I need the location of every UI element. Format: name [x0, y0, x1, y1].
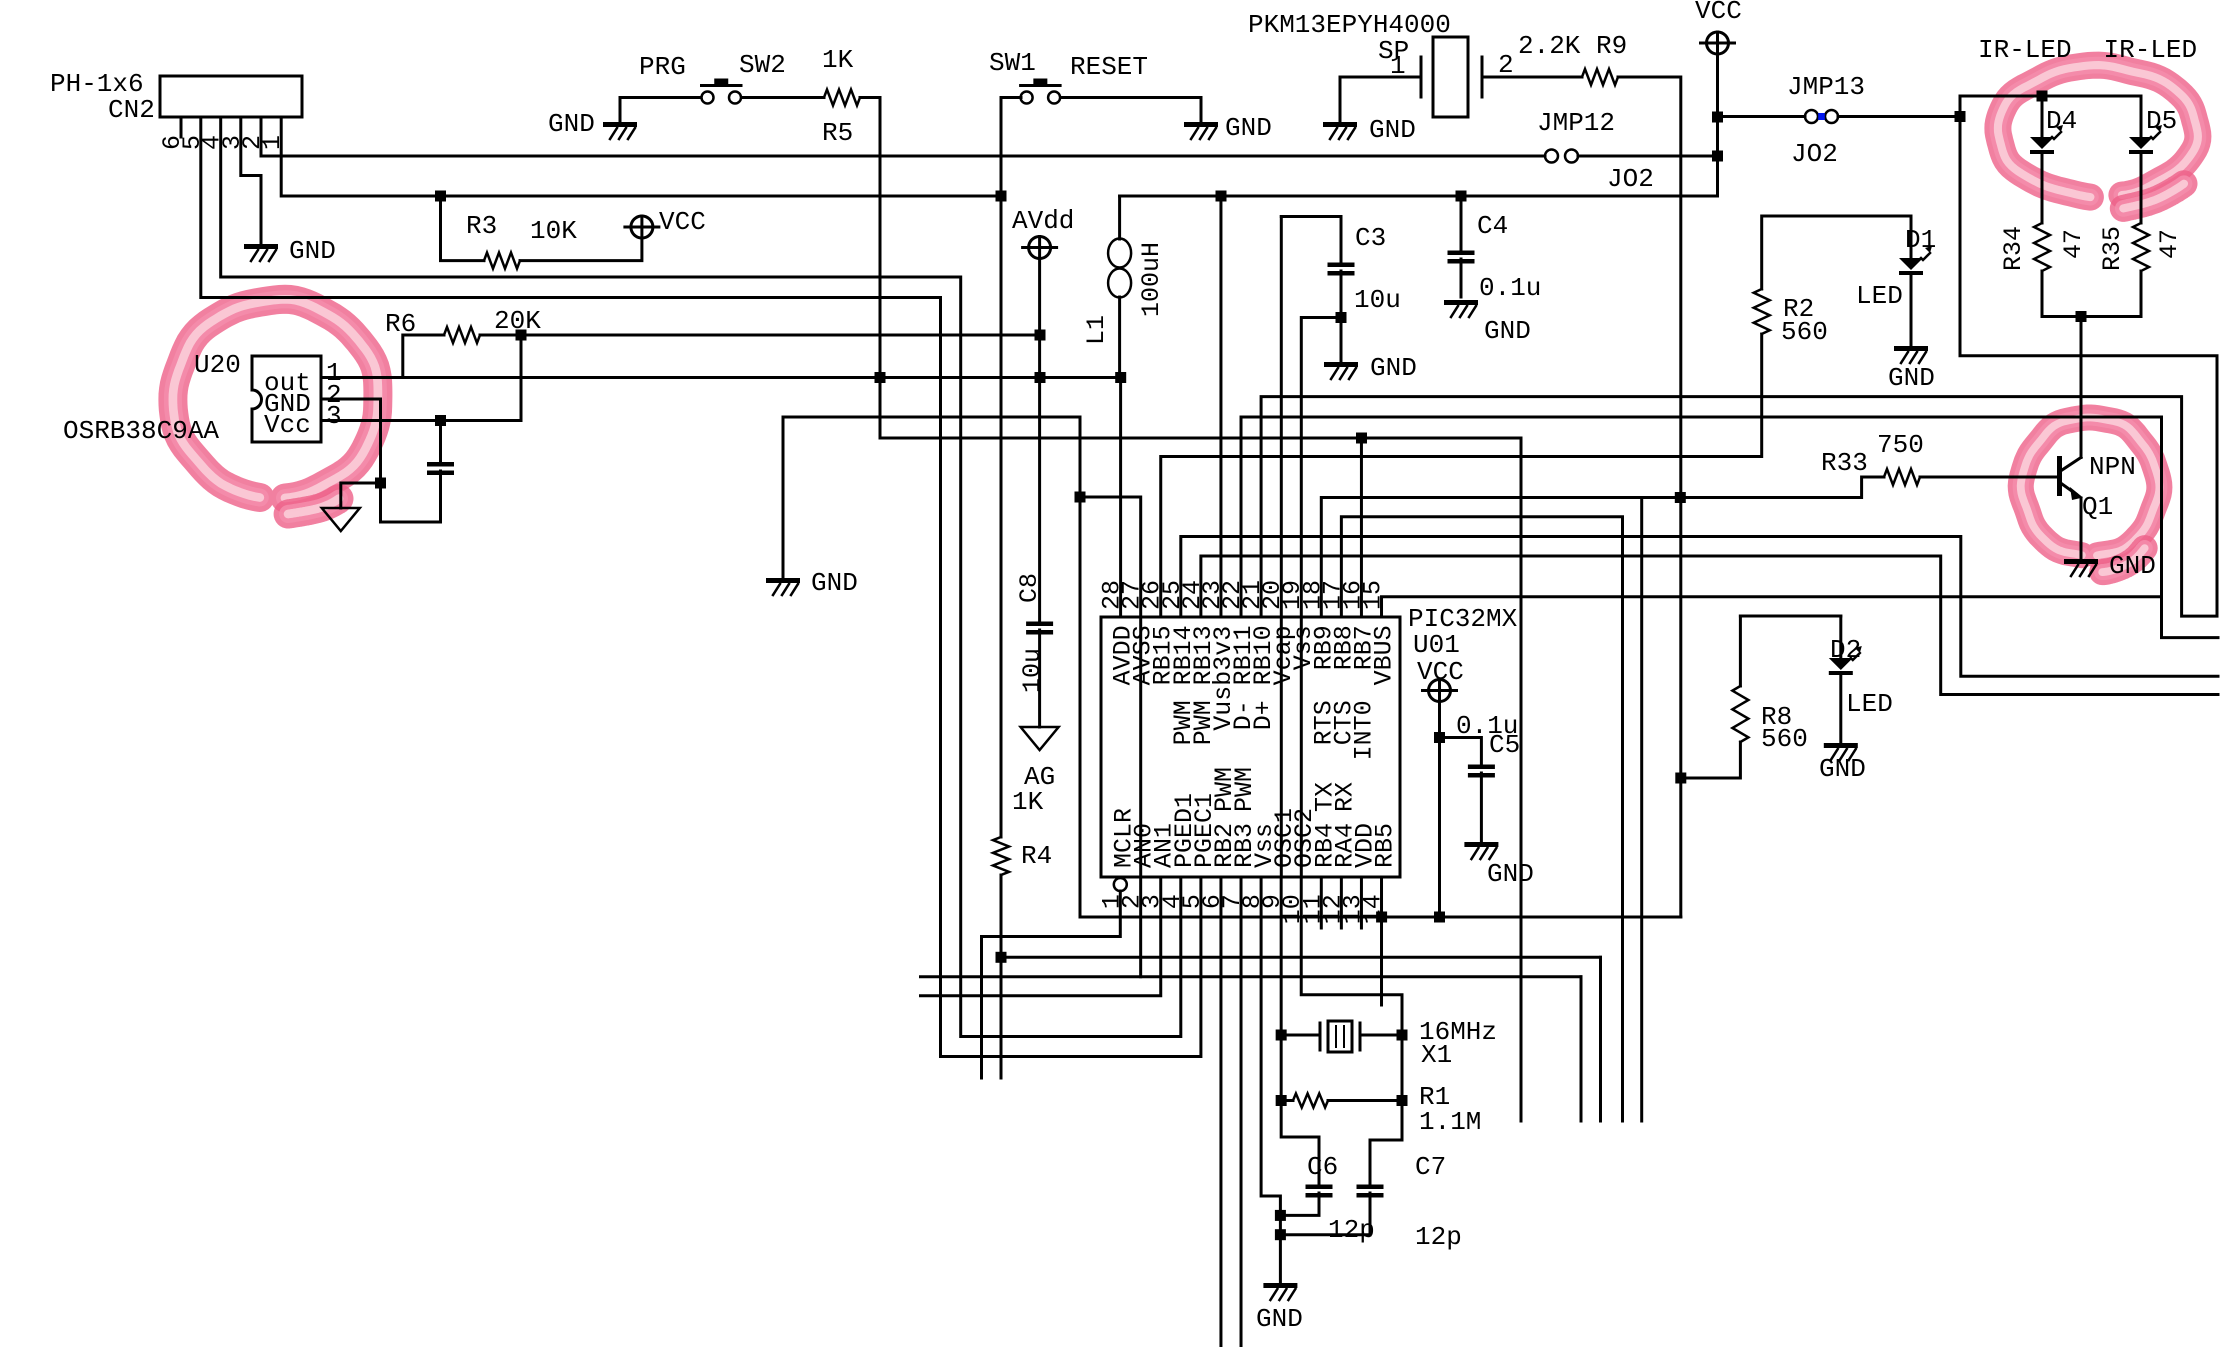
svg-text:560: 560 [1761, 724, 1808, 754]
svg-text:SW1: SW1 [989, 48, 1036, 78]
svg-text:100uH: 100uH [1137, 242, 1166, 317]
svg-text:10u: 10u [1018, 648, 1047, 693]
svg-text:OSRB38C9AA: OSRB38C9AA [63, 416, 219, 446]
svg-text:GND: GND [1888, 363, 1935, 393]
svg-text:JMP12: JMP12 [1537, 108, 1615, 138]
svg-text:6: 6 [158, 135, 187, 150]
svg-text:U01: U01 [1413, 630, 1460, 660]
svg-text:GND: GND [1369, 115, 1416, 145]
svg-text:0.1u: 0.1u [1479, 273, 1541, 303]
svg-text:GND: GND [1256, 1304, 1303, 1334]
svg-text:3: 3 [326, 401, 342, 431]
svg-text:R34: R34 [1999, 226, 2028, 271]
svg-text:SW2: SW2 [739, 50, 786, 80]
svg-text:LED: LED [1846, 689, 1893, 719]
svg-text:CN2: CN2 [108, 95, 155, 125]
svg-text:D5: D5 [2146, 106, 2177, 136]
svg-text:2.2K R9: 2.2K R9 [1518, 31, 1627, 61]
svg-text:GND: GND [2109, 551, 2156, 581]
svg-text:JO2: JO2 [1607, 164, 1654, 194]
svg-text:GND: GND [548, 109, 595, 139]
svg-text:PKM13EPYH4000: PKM13EPYH4000 [1248, 10, 1451, 40]
svg-text:X1: X1 [1421, 1040, 1452, 1070]
svg-text:47: 47 [2059, 229, 2088, 259]
svg-text:C8: C8 [1015, 573, 1044, 603]
svg-text:C5: C5 [1489, 730, 1520, 760]
svg-text:R33: R33 [1821, 448, 1868, 478]
svg-text:10u: 10u [1354, 285, 1401, 315]
svg-text:PRG: PRG [639, 52, 686, 82]
svg-text:R5: R5 [822, 118, 853, 148]
svg-text:JMP13: JMP13 [1787, 72, 1865, 102]
svg-text:VCC: VCC [1695, 0, 1742, 26]
svg-text:PWM: PWM [1230, 767, 1259, 812]
svg-text:C6: C6 [1307, 1152, 1338, 1182]
svg-text:AVdd: AVdd [1012, 206, 1074, 236]
svg-text:RB5: RB5 [1371, 823, 1400, 868]
svg-text:IR-LED: IR-LED [1978, 35, 2072, 65]
svg-text:C3: C3 [1355, 223, 1386, 253]
svg-text:GND: GND [1487, 859, 1534, 889]
svg-text:L1: L1 [1082, 315, 1111, 345]
svg-text:R35: R35 [2098, 226, 2127, 271]
svg-text:RESET: RESET [1070, 52, 1148, 82]
svg-text:RX: RX [1330, 782, 1359, 812]
svg-text:28: 28 [1098, 580, 1127, 610]
svg-text:750: 750 [1877, 430, 1924, 460]
svg-text:D1: D1 [1905, 225, 1936, 255]
svg-text:PWM: PWM [1189, 700, 1218, 745]
svg-text:1.1M: 1.1M [1419, 1107, 1481, 1137]
svg-text:GND: GND [289, 236, 336, 266]
svg-text:GND: GND [1370, 353, 1417, 383]
svg-text:LED: LED [1856, 281, 1903, 311]
svg-text:AVDD: AVDD [1109, 625, 1138, 685]
svg-text:GND: GND [1819, 754, 1866, 784]
svg-text:IR-LED: IR-LED [2104, 35, 2198, 65]
svg-text:U20: U20 [194, 350, 241, 380]
svg-text:GND: GND [1225, 113, 1272, 143]
svg-text:VCC: VCC [659, 207, 706, 237]
svg-text:D2: D2 [1830, 635, 1861, 665]
svg-text:Q1: Q1 [2082, 492, 2113, 522]
svg-text:47: 47 [2155, 229, 2184, 259]
svg-text:R6: R6 [385, 309, 416, 339]
svg-text:INT0: INT0 [1349, 700, 1378, 760]
svg-text:JO2: JO2 [1791, 139, 1838, 169]
svg-text:12p: 12p [1328, 1215, 1375, 1245]
svg-text:C7: C7 [1415, 1152, 1446, 1182]
svg-text:560: 560 [1781, 317, 1828, 347]
svg-text:20K: 20K [494, 306, 541, 336]
svg-text:C4: C4 [1477, 211, 1508, 241]
svg-text:1K: 1K [822, 45, 854, 75]
svg-text:GND: GND [1484, 316, 1531, 346]
svg-text:R3: R3 [466, 211, 497, 241]
svg-text:GND: GND [811, 568, 858, 598]
svg-text:D4: D4 [2046, 106, 2077, 136]
svg-text:Vcc: Vcc [264, 410, 311, 440]
svg-text:D+: D+ [1249, 700, 1278, 730]
svg-text:12p: 12p [1415, 1222, 1462, 1252]
svg-text:NPN: NPN [2089, 452, 2136, 482]
svg-text:AG: AG [1024, 762, 1055, 792]
svg-text:R4: R4 [1021, 841, 1052, 871]
svg-text:10K: 10K [530, 216, 577, 246]
